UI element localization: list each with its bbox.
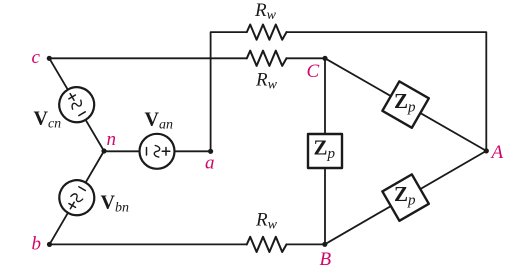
AC source V_an [140, 134, 175, 169]
node C [322, 56, 327, 61]
AC source V_cn [53, 81, 101, 129]
svg-text:Van: Van [145, 108, 173, 132]
node B [322, 242, 327, 247]
svg-text:Rw: Rw [255, 209, 278, 232]
wire B to A [325, 151, 487, 244]
svg-text:A: A [490, 142, 504, 163]
svg-text:Vcn: Vcn [34, 107, 62, 131]
node n [101, 148, 106, 153]
wire n to b [50, 151, 105, 244]
wire n to a [104, 150, 211, 152]
node a [208, 149, 213, 154]
node b [47, 242, 52, 247]
impedance Z_p (B-A branch) [382, 174, 428, 220]
svg-text:Rw: Rw [255, 69, 278, 92]
wire c to Rw (line c-C) [49, 57, 247, 59]
svg-text:a: a [205, 153, 215, 174]
AC source V_bn [53, 174, 101, 222]
wire Rw to node C [287, 57, 326, 59]
wire c to n [49, 58, 104, 151]
wire top rail to node A [287, 32, 487, 151]
svg-text:B: B [320, 249, 332, 270]
wire C to A [325, 58, 486, 151]
resistor Rw (line c-C) [247, 51, 287, 66]
svg-text:Rw: Rw [254, 0, 277, 23]
node c [47, 56, 52, 61]
node A [484, 148, 489, 153]
wire b to Rw (line b-B) [50, 243, 247, 245]
svg-text:C: C [307, 61, 320, 82]
resistor Rw (line b-B) [247, 237, 287, 252]
svg-text:b: b [32, 234, 42, 255]
resistor Rw (top rail) [247, 25, 287, 40]
svg-text:Vbn: Vbn [101, 191, 129, 215]
svg-text:c: c [32, 47, 41, 68]
wire C to B [324, 58, 326, 244]
wire Rw to node B [287, 243, 325, 245]
wire node a up to top rail [211, 32, 247, 151]
impedance Z_p (C-A branch) [382, 81, 428, 127]
svg-text:n: n [107, 129, 117, 150]
impedance Z_p (C-B branch) [308, 134, 342, 168]
